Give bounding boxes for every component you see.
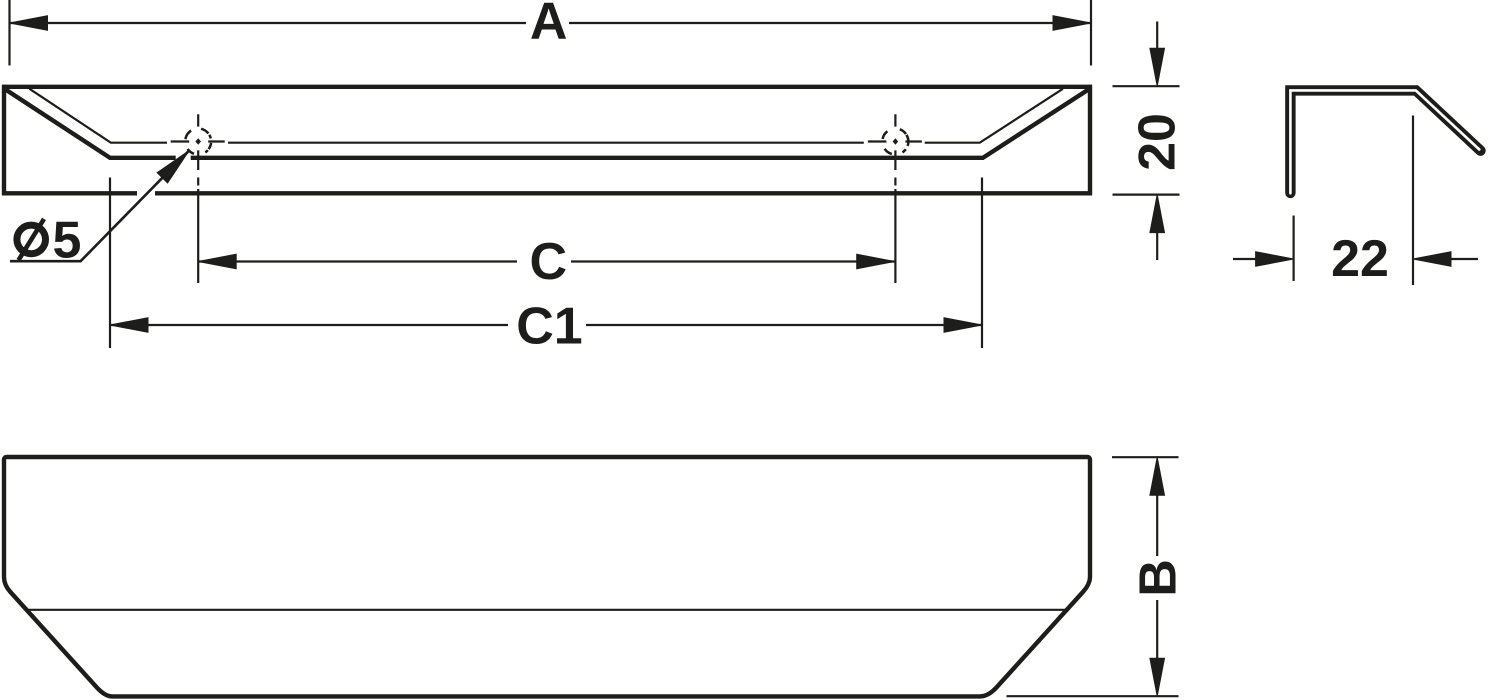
svg-text:20: 20 [1129,113,1187,171]
svg-text:A: A [530,0,568,51]
svg-text:C: C [530,233,568,291]
svg-text:22: 22 [1331,230,1389,288]
svg-text:C1: C1 [516,298,582,356]
svg-text:B: B [1129,559,1187,597]
svg-text:5: 5 [53,212,82,270]
